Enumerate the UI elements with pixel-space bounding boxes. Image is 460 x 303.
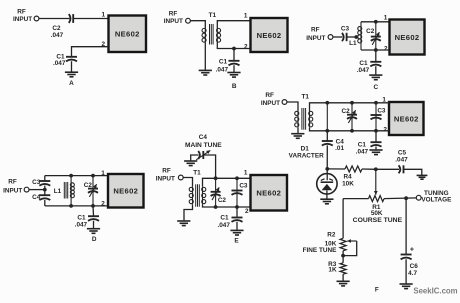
svg-text:2: 2 [101,201,105,208]
svg-text:C1: C1 [358,141,367,148]
svg-text:NE602: NE602 [115,30,140,39]
svg-text:RF: RF [8,179,17,186]
svg-text:.047: .047 [395,157,408,164]
svg-text:C1: C1 [220,215,229,222]
svg-text:NE602: NE602 [113,187,138,196]
svg-text:C4: C4 [199,134,208,141]
svg-text:.047: .047 [51,32,64,39]
svg-text:INPUT: INPUT [164,18,183,25]
svg-text:2: 2 [384,45,388,52]
svg-text:C5: C5 [398,149,407,156]
svg-text:SeekIC.com: SeekIC.com [413,287,457,296]
svg-text:R4: R4 [344,174,353,181]
svg-text:INPUT: INPUT [306,35,325,42]
svg-text:C2: C2 [218,197,227,204]
svg-text:C2: C2 [52,25,61,32]
svg-text:2: 2 [244,43,248,50]
svg-text:C1: C1 [219,58,228,65]
svg-text:INPUT: INPUT [261,100,280,107]
svg-text:.047: .047 [356,148,369,155]
svg-text:VARACTER: VARACTER [289,152,324,159]
svg-text:NE602: NE602 [395,33,420,42]
svg-text:C2: C2 [366,28,375,35]
svg-text:C3: C3 [32,179,41,186]
svg-text:2: 2 [383,126,387,133]
svg-text:1: 1 [384,14,388,21]
svg-text:1: 1 [244,170,248,177]
svg-text:MAIN TUNE: MAIN TUNE [185,142,222,149]
svg-text:E: E [234,238,239,245]
svg-text:.047: .047 [217,222,230,229]
svg-text:2: 2 [245,208,249,215]
svg-text:C3: C3 [239,183,248,190]
svg-text:RF: RF [17,8,26,15]
svg-text:+: + [410,246,414,253]
svg-text:1: 1 [244,12,248,19]
svg-text:10K: 10K [342,181,354,188]
svg-text:L1: L1 [349,40,357,47]
svg-text:INPUT: INPUT [3,187,22,194]
svg-text:VOLTAGE: VOLTAGE [421,196,452,203]
svg-text:C4: C4 [32,194,41,201]
svg-text:B: B [232,83,237,90]
svg-text:FINE TUNE: FINE TUNE [303,247,337,254]
svg-text:L1: L1 [54,188,62,195]
svg-text:.047: .047 [216,66,229,73]
svg-text:RF: RF [162,167,171,174]
svg-text:C1: C1 [359,60,368,67]
svg-text:RF: RF [169,10,178,17]
svg-text:.047: .047 [357,67,370,74]
svg-text:.047: .047 [53,60,66,67]
svg-text:T1: T1 [301,94,309,101]
svg-text:RF: RF [265,92,274,99]
svg-text:NE602: NE602 [257,31,282,40]
svg-text:C: C [373,84,378,91]
svg-text:C2: C2 [342,108,351,115]
svg-text:NE602: NE602 [256,189,281,198]
svg-text:C3: C3 [341,25,350,32]
svg-text:C1: C1 [77,215,86,222]
svg-text:COURSE TUNE: COURSE TUNE [353,217,403,224]
svg-text:D: D [92,236,97,243]
svg-text:T1: T1 [193,170,201,177]
svg-text:RF: RF [311,26,320,33]
svg-text:.047: .047 [75,222,88,229]
svg-text:A: A [69,80,74,87]
svg-text:C3: C3 [377,108,386,115]
svg-text:NE602: NE602 [394,114,419,123]
svg-text:.01: .01 [335,145,344,152]
svg-text:4.7: 4.7 [408,270,417,277]
svg-text:F: F [375,287,379,294]
svg-text:T1: T1 [209,12,217,19]
svg-text:INPUT: INPUT [156,176,175,183]
svg-text:R2: R2 [327,231,336,238]
svg-text:50K: 50K [371,210,383,217]
svg-text:INPUT: INPUT [13,16,32,23]
svg-text:C2: C2 [84,182,93,189]
svg-text:1K: 1K [328,267,337,274]
svg-text:1: 1 [101,170,105,177]
svg-text:1: 1 [102,12,106,19]
